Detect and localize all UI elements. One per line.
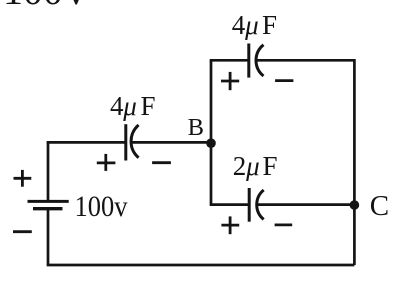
wire: riser from node B up to top branch (210, 60, 213, 143)
svg-text:v: v (66, 0, 86, 13)
wire: battery negative plate down to bottom-left corner (47, 209, 50, 265)
capacitor C3 2uF straight plate (248, 188, 251, 222)
battery polarity + sign (14, 170, 32, 187)
capacitor C2 4uF curved plate (256, 45, 263, 76)
label C2 value 4μF (232, 10, 277, 40)
svg-text:μ: μ (122, 91, 137, 121)
polarity - of C3 (275, 223, 293, 226)
wire: capacitor C1 to node B (132, 141, 211, 144)
svg-text:F: F (141, 91, 156, 121)
svg-text:F: F (262, 10, 277, 40)
wire: middle branch right segment from C3 to node C (257, 203, 354, 206)
svg-text:μ: μ (244, 10, 259, 40)
label C3 value 2μF (233, 151, 278, 181)
label C1 value 4μF (110, 91, 156, 121)
wire: top branch left segment to capacitor C2 (210, 59, 249, 62)
node B junction dot (206, 138, 216, 148)
polarity + of C1 (97, 154, 116, 171)
wire: right side vertical from top-right corner to bottom-right corner (353, 59, 356, 265)
svg-text:4: 4 (110, 91, 124, 121)
capacitor C3 2uF curved plate (257, 190, 264, 219)
wire: middle branch left segment to capacitor C3 (210, 203, 250, 206)
wire: left vertical from top-left corner down to battery positive plate (47, 141, 50, 201)
cropped text fragment "100 v" at top edge (3, 0, 86, 13)
svg-text:2: 2 (233, 151, 247, 181)
battery V1 positive plate (long) (28, 200, 69, 203)
polarity + of C3 (221, 216, 239, 234)
svg-text:100: 100 (3, 0, 63, 13)
capacitor C1 4uF straight plate (124, 124, 127, 160)
svg-text:100v: 100v (75, 190, 128, 223)
battery V1 negative plate (short) (33, 207, 63, 210)
wire: top-left horizontal from corner to capacitor C1 (47, 141, 126, 144)
svg-text:μ: μ (245, 151, 260, 181)
svg-text:C: C (370, 190, 389, 222)
svg-text:4: 4 (232, 10, 246, 40)
capacitor C2 4uF straight plate (247, 44, 250, 78)
wire: top branch right segment from C2 to top-right corner (257, 59, 355, 62)
polarity - of C2 (275, 79, 293, 82)
node C junction dot (350, 200, 360, 210)
polarity + of C2 (221, 72, 239, 90)
battery polarity - sign (13, 230, 32, 233)
svg-text:F: F (263, 151, 278, 181)
capacitor C1 4uF curved plate (131, 125, 139, 158)
polarity - of C1 (152, 161, 171, 164)
svg-text:B: B (188, 114, 204, 141)
wire: node B down leg (210, 143, 213, 204)
wire: bottom horizontal return (47, 264, 355, 267)
